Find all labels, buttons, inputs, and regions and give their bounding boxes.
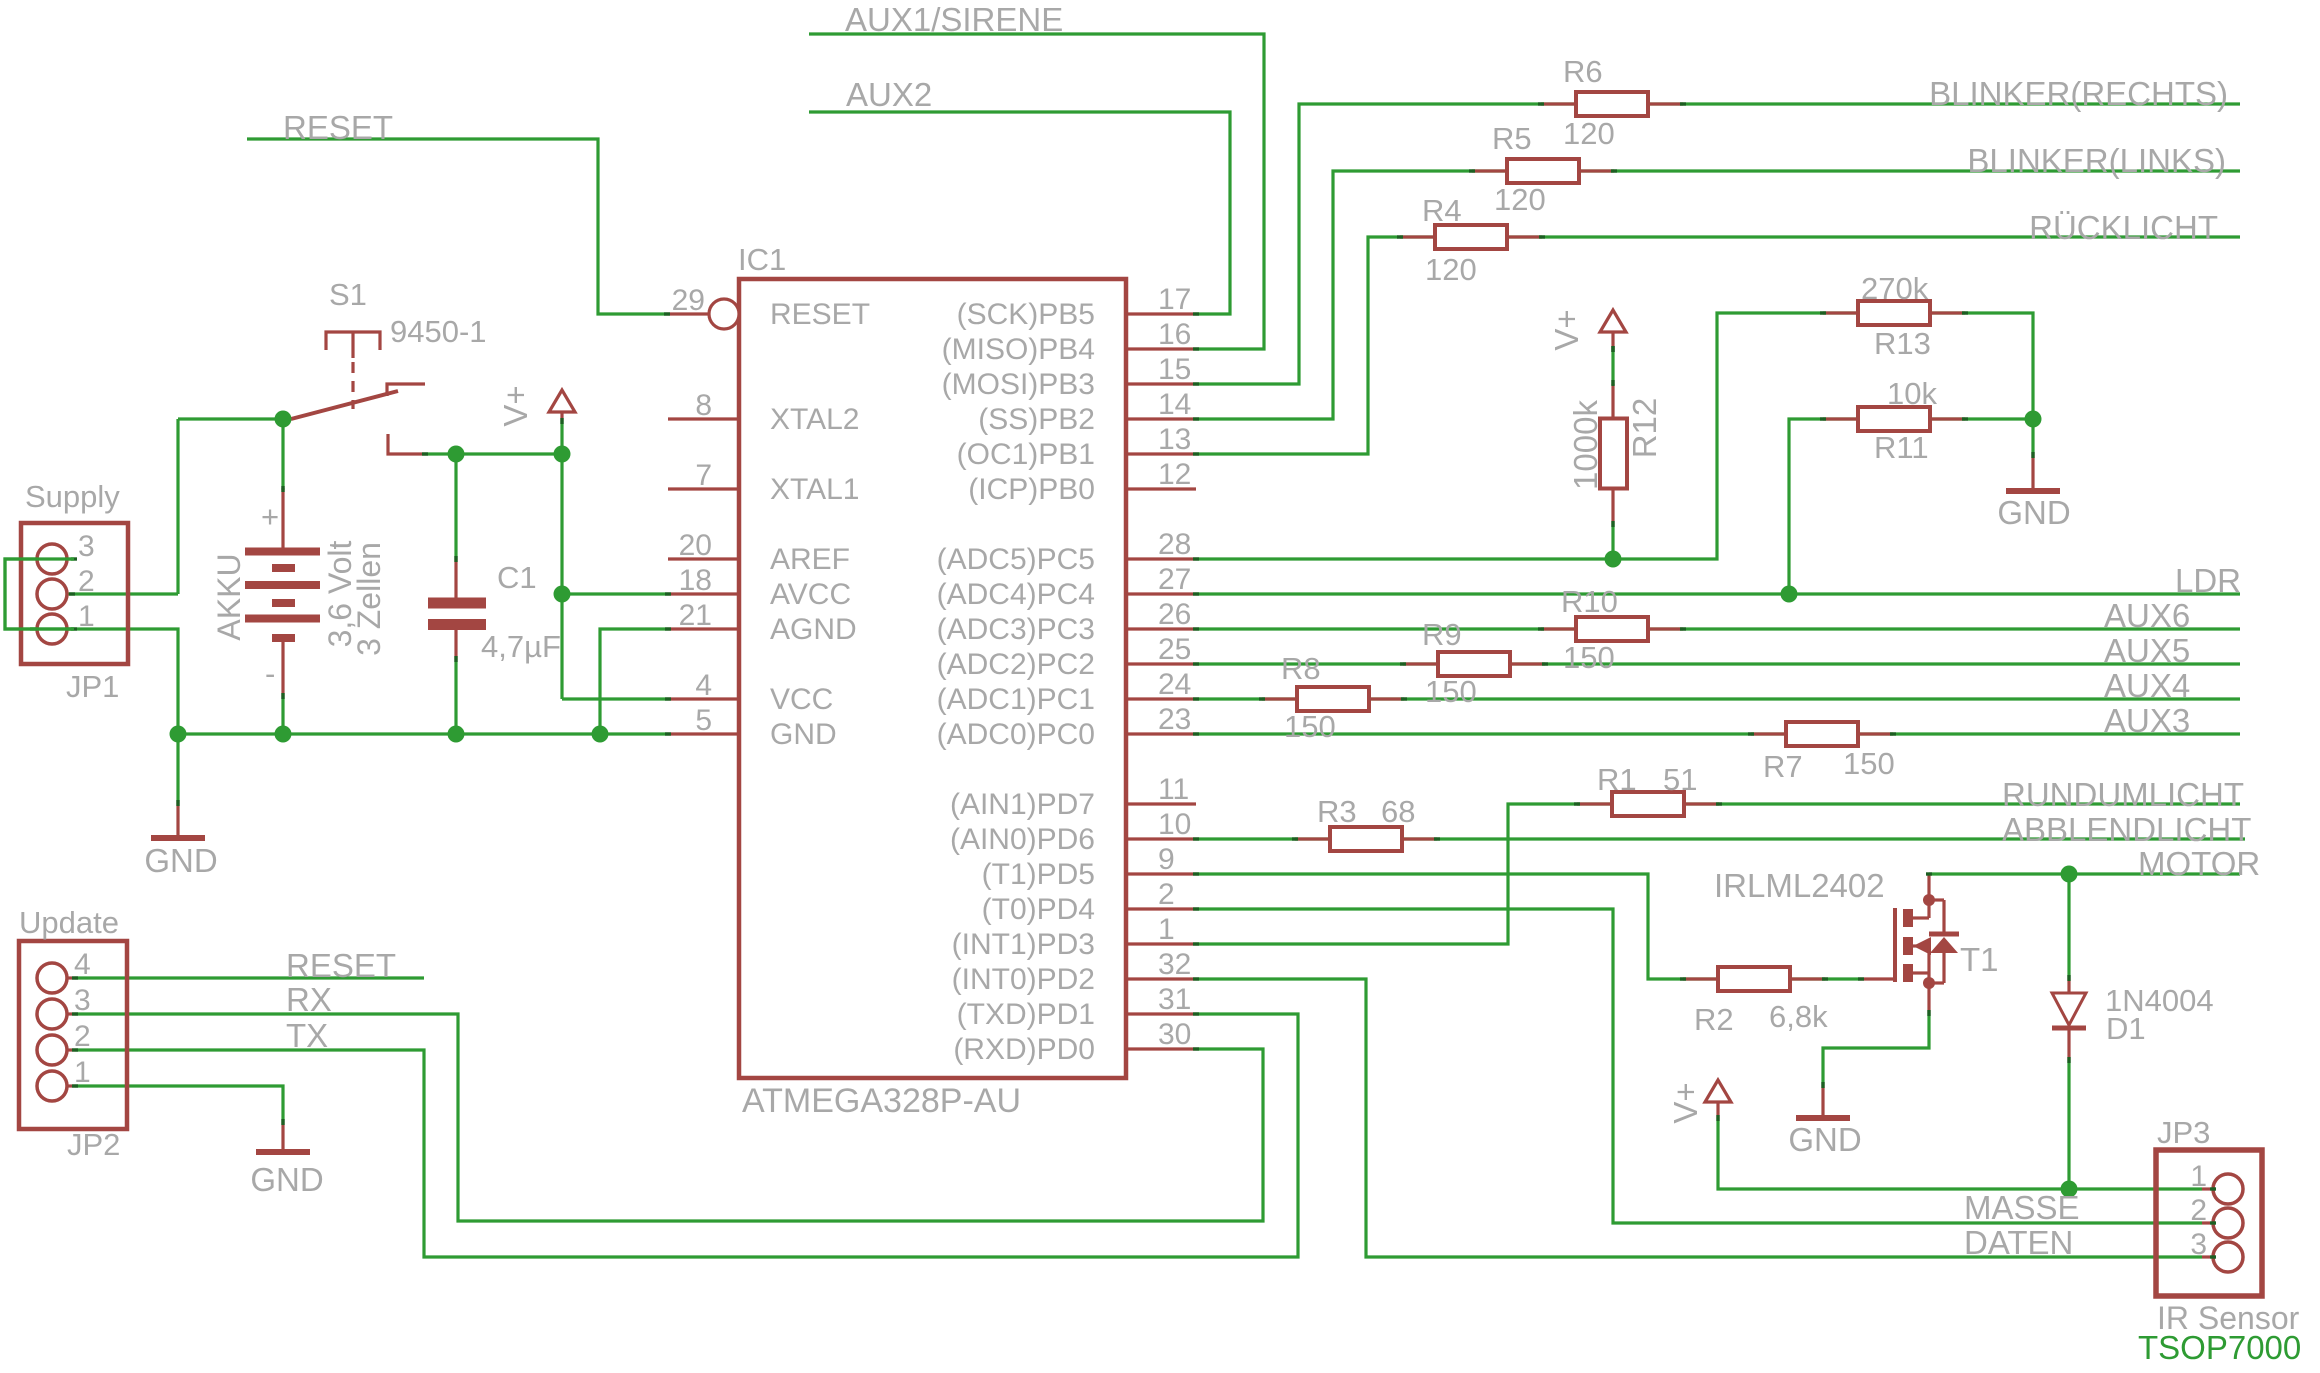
svg-text:(SS)PB2: (SS)PB2	[978, 403, 1095, 436]
svg-text:R11: R11	[1874, 430, 1929, 465]
svg-text:21: 21	[679, 599, 712, 632]
svg-text:27: 27	[1158, 563, 1191, 596]
svg-text:R6: R6	[1563, 54, 1603, 89]
svg-text:24: 24	[1158, 668, 1191, 701]
svg-text:(MISO)PB4: (MISO)PB4	[942, 333, 1095, 366]
svg-text:(ADC1)PC1: (ADC1)PC1	[937, 683, 1095, 716]
svg-text:Supply: Supply	[25, 479, 120, 514]
svg-text:20: 20	[679, 529, 712, 562]
svg-text:R2: R2	[1694, 1002, 1734, 1037]
svg-text:(INT0)PD2: (INT0)PD2	[952, 963, 1095, 996]
svg-text:R13: R13	[1874, 326, 1931, 361]
svg-text:7: 7	[695, 459, 712, 492]
svg-text:(ICP)PB0: (ICP)PB0	[968, 473, 1095, 506]
svg-text:AUX2: AUX2	[846, 76, 932, 113]
svg-text:16: 16	[1158, 318, 1191, 351]
svg-text:2: 2	[74, 1020, 91, 1053]
svg-text:RESET: RESET	[283, 109, 393, 146]
svg-text:(ADC5)PC5: (ADC5)PC5	[937, 543, 1095, 576]
svg-text:TSOP7000: TSOP7000	[2138, 1329, 2301, 1366]
svg-text:R1: R1	[1597, 762, 1637, 797]
svg-text:(RXD)PD0: (RXD)PD0	[953, 1033, 1095, 1066]
svg-text:AUX4: AUX4	[2104, 667, 2190, 704]
svg-text:AVCC: AVCC	[770, 578, 851, 611]
svg-text:IC1: IC1	[738, 242, 786, 277]
svg-text:MASSE: MASSE	[1964, 1189, 2080, 1226]
svg-text:+: +	[261, 499, 279, 534]
svg-text:2: 2	[78, 565, 95, 598]
svg-text:R7: R7	[1763, 749, 1803, 784]
svg-text:(INT1)PD3: (INT1)PD3	[952, 928, 1095, 961]
svg-text:2: 2	[2190, 1194, 2207, 1227]
svg-text:15: 15	[1158, 353, 1191, 386]
svg-text:18: 18	[679, 564, 712, 597]
svg-text:ABBLENDLICHT: ABBLENDLICHT	[2002, 811, 2251, 848]
svg-text:31: 31	[1158, 983, 1191, 1016]
svg-text:(TXD)PD1: (TXD)PD1	[957, 998, 1095, 1031]
svg-text:(ADC4)PC4: (ADC4)PC4	[937, 578, 1095, 611]
svg-text:R4: R4	[1422, 193, 1462, 228]
svg-text:(AIN0)PD6: (AIN0)PD6	[950, 823, 1095, 856]
svg-text:T1: T1	[1960, 941, 1999, 978]
svg-text:150: 150	[1425, 674, 1477, 709]
svg-text:(SCK)PB5: (SCK)PB5	[957, 298, 1095, 331]
svg-text:(OC1)PB1: (OC1)PB1	[957, 438, 1095, 471]
svg-text:3: 3	[2190, 1228, 2207, 1261]
svg-text:R3: R3	[1317, 794, 1357, 829]
svg-text:LDR: LDR	[2175, 562, 2241, 599]
svg-text:MOTOR: MOTOR	[2138, 845, 2260, 882]
svg-text:XTAL1: XTAL1	[770, 473, 860, 506]
svg-text:25: 25	[1158, 633, 1191, 666]
svg-text:V+: V+	[1548, 309, 1585, 350]
svg-text:26: 26	[1158, 598, 1191, 631]
svg-text:150: 150	[1563, 640, 1615, 675]
svg-text:GND: GND	[250, 1161, 323, 1198]
svg-text:ATMEGA328P-AU: ATMEGA328P-AU	[742, 1082, 1021, 1120]
svg-text:R10: R10	[1561, 584, 1618, 619]
svg-text:-: -	[265, 656, 275, 691]
svg-text:1: 1	[78, 600, 95, 633]
svg-text:BLINKER(LINKS): BLINKER(LINKS)	[1967, 142, 2226, 179]
svg-text:(ADC3)PC3: (ADC3)PC3	[937, 613, 1095, 646]
svg-text:R9: R9	[1422, 617, 1462, 652]
svg-text:AGND: AGND	[770, 613, 857, 646]
svg-text:3: 3	[78, 530, 95, 563]
svg-text:JP2: JP2	[67, 1127, 120, 1162]
svg-text:IRLML2402: IRLML2402	[1714, 867, 1885, 904]
svg-text:120: 120	[1563, 116, 1615, 151]
svg-text:RUNDUMLICHT: RUNDUMLICHT	[2002, 776, 2244, 813]
svg-text:(AIN1)PD7: (AIN1)PD7	[950, 788, 1095, 821]
svg-text:V+: V+	[1667, 1082, 1704, 1123]
svg-text:1: 1	[2190, 1160, 2207, 1193]
svg-text:RESET: RESET	[286, 947, 396, 984]
svg-text:R5: R5	[1492, 121, 1532, 156]
svg-text:GND: GND	[1788, 1121, 1861, 1158]
svg-text:VCC: VCC	[770, 683, 833, 716]
svg-text:AKKU: AKKU	[211, 553, 247, 640]
svg-text:JP3: JP3	[2157, 1115, 2210, 1150]
svg-text:AUX1/SIRENE: AUX1/SIRENE	[845, 1, 1063, 38]
svg-text:9450-1: 9450-1	[390, 314, 487, 349]
svg-text:RX: RX	[286, 981, 332, 1018]
svg-text:XTAL2: XTAL2	[770, 403, 860, 436]
svg-text:AUX3: AUX3	[2104, 702, 2190, 739]
svg-text:3: 3	[74, 984, 91, 1017]
svg-text:C1: C1	[497, 560, 537, 595]
svg-text:150: 150	[1284, 709, 1336, 744]
svg-text:BLINKER(RECHTS): BLINKER(RECHTS)	[1929, 75, 2228, 112]
svg-text:14: 14	[1158, 388, 1191, 421]
svg-text:17: 17	[1158, 283, 1191, 316]
svg-text:4: 4	[74, 948, 91, 981]
svg-text:51: 51	[1663, 762, 1697, 797]
svg-text:Update: Update	[19, 905, 119, 940]
svg-text:DATEN: DATEN	[1964, 1224, 2073, 1261]
svg-text:12: 12	[1158, 458, 1191, 491]
svg-text:1000k: 1000k	[1567, 400, 1604, 490]
svg-text:10: 10	[1158, 808, 1191, 841]
svg-text:270k: 270k	[1861, 271, 1929, 306]
svg-text:(MOSI)PB3: (MOSI)PB3	[942, 368, 1095, 401]
svg-text:V+: V+	[497, 385, 534, 426]
svg-text:23: 23	[1158, 703, 1191, 736]
svg-text:68: 68	[1381, 794, 1415, 829]
svg-text:JP1: JP1	[66, 669, 119, 704]
svg-text:10k: 10k	[1887, 376, 1937, 411]
svg-text:13: 13	[1158, 423, 1191, 456]
svg-text:6,8k: 6,8k	[1769, 999, 1828, 1034]
svg-text:(ADC0)PC0: (ADC0)PC0	[937, 718, 1095, 751]
svg-text:4: 4	[695, 669, 712, 702]
svg-text:1: 1	[74, 1056, 91, 1089]
svg-text:AREF: AREF	[770, 543, 850, 576]
svg-text:R12: R12	[1626, 398, 1663, 459]
svg-text:AUX5: AUX5	[2104, 632, 2190, 669]
svg-text:RÜCKLICHT: RÜCKLICHT	[2029, 209, 2218, 246]
svg-text:32: 32	[1158, 948, 1191, 981]
svg-text:D1: D1	[2106, 1011, 2146, 1046]
svg-text:4,7µF: 4,7µF	[481, 629, 561, 664]
svg-text:30: 30	[1158, 1018, 1191, 1051]
svg-text:GND: GND	[1997, 494, 2070, 531]
svg-text:150: 150	[1843, 746, 1895, 781]
svg-text:9: 9	[1158, 843, 1175, 876]
svg-text:120: 120	[1494, 182, 1546, 217]
svg-text:S1: S1	[329, 277, 367, 312]
svg-text:GND: GND	[770, 718, 837, 751]
svg-text:1: 1	[1158, 913, 1175, 946]
svg-text:28: 28	[1158, 528, 1191, 561]
svg-text:11: 11	[1158, 773, 1189, 806]
svg-text:(T1)PD5: (T1)PD5	[982, 858, 1095, 891]
svg-text:8: 8	[695, 389, 712, 422]
svg-text:2: 2	[1158, 878, 1175, 911]
svg-text:TX: TX	[286, 1017, 328, 1054]
svg-text:5: 5	[695, 704, 712, 737]
svg-text:(T0)PD4: (T0)PD4	[982, 893, 1095, 926]
svg-text:R8: R8	[1281, 651, 1321, 686]
svg-text:29: 29	[672, 284, 705, 317]
svg-text:120: 120	[1425, 252, 1477, 287]
svg-text:GND: GND	[144, 842, 217, 879]
svg-text:RESET: RESET	[770, 298, 870, 331]
svg-text:AUX6: AUX6	[2104, 597, 2190, 634]
svg-text:3 Zellen: 3 Zellen	[351, 542, 387, 656]
svg-text:(ADC2)PC2: (ADC2)PC2	[937, 648, 1095, 681]
